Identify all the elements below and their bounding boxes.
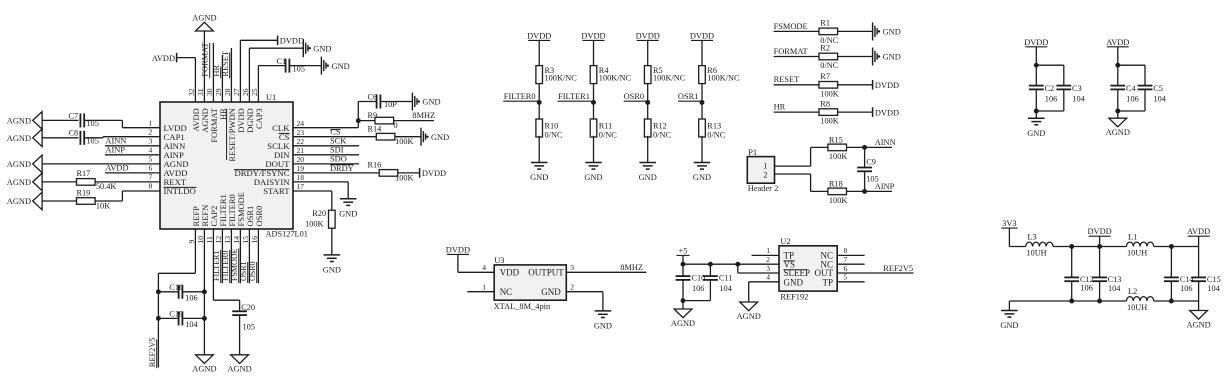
svg-text:24: 24 (297, 119, 305, 128)
resistor R15 (828, 136, 847, 161)
net DRDY label (330, 164, 354, 173)
wire HR to R8 (774, 111, 820, 113)
resistor R13 (699, 119, 726, 140)
resistor R11 (590, 119, 617, 140)
svg-text:0/NC: 0/NC (545, 131, 563, 140)
wire U1 pin19 DRDY (293, 172, 379, 174)
wire U1 pin16 OSR0 stub (257, 229, 259, 283)
svg-text:AGND: AGND (7, 197, 31, 206)
svg-text:19: 19 (297, 164, 305, 173)
svg-text:FILTER0: FILTER0 (504, 92, 536, 101)
wire DVDD to R4 (593, 40, 595, 65)
voltage reference U2 REF192 body (779, 246, 837, 291)
inductor L3 (1026, 233, 1053, 258)
svg-text:U2: U2 (780, 237, 790, 246)
ground AGND below REFN (196, 355, 214, 364)
svg-text:XTAL_8M_4pin: XTAL_8M_4pin (494, 302, 551, 311)
inductor L1 (1127, 233, 1154, 258)
svg-text:104: 104 (185, 320, 198, 329)
ground AGND below U2 GND (740, 302, 758, 311)
svg-text:5: 5 (149, 155, 153, 164)
svg-text:GND: GND (1027, 129, 1045, 138)
wire DVDD to R3 (538, 40, 540, 65)
svg-text:C11: C11 (719, 274, 733, 283)
U1 top pin numbers 32-25 (187, 88, 259, 96)
junction dot C14 top (1169, 244, 1174, 249)
svg-text:R12: R12 (653, 122, 667, 131)
svg-text:AGND: AGND (192, 365, 216, 374)
svg-text:REF2V5: REF2V5 (883, 264, 913, 273)
op-amp U1 ADS127L01 body (160, 102, 293, 229)
svg-text:C1: C1 (277, 57, 287, 66)
ground AGND arrow pin2 (7, 129, 42, 147)
U1 bottom pin numbers 9-16 (187, 236, 259, 244)
net FORMAT rotated label (201, 43, 210, 79)
wire +5 rail to U2 VS (683, 263, 779, 265)
U1 right pin names (234, 123, 290, 196)
svg-text:Header 2: Header 2 (748, 184, 778, 193)
capacitor C8 (69, 129, 99, 146)
net RESET rotated label (221, 51, 230, 78)
wire U1 pin31 AGND (203, 31, 205, 102)
svg-text:AINP: AINP (105, 146, 125, 155)
svg-text:3: 3 (570, 263, 574, 272)
svg-text:AINN: AINN (105, 137, 126, 146)
wire C7 to U1 pin1 (84, 120, 160, 127)
U1 right pin numbers 24-17 (297, 119, 305, 191)
svg-text:10UH: 10UH (1026, 249, 1046, 258)
inductor L2 (1127, 287, 1154, 312)
svg-text:C16: C16 (169, 283, 183, 292)
svg-text:GND: GND (639, 173, 657, 182)
svg-text:RESET: RESET (221, 51, 230, 77)
wire U1 pin23 CS (293, 136, 376, 138)
wire R4 to R11 (593, 84, 595, 119)
svg-text:C20: C20 (241, 303, 255, 312)
svg-text:R8: R8 (820, 99, 830, 108)
power DVDD tick top (277, 36, 279, 46)
power GND symbol C6 (411, 93, 413, 111)
svg-text:2: 2 (570, 283, 574, 292)
svg-text:OSR0: OSR0 (624, 92, 644, 101)
junction dot REF2V5 C16 (156, 289, 161, 294)
wire AGND to C8 (42, 137, 78, 139)
junction dot FILTER1 (591, 100, 596, 105)
svg-text:20: 20 (297, 155, 305, 164)
resistor R16 (368, 160, 414, 182)
svg-text:AGND: AGND (227, 365, 251, 374)
wire R14 to GND (395, 136, 421, 138)
svg-text:AVDD: AVDD (105, 164, 128, 173)
svg-text:100K: 100K (395, 137, 413, 146)
wire U1 pin9 REFP (158, 229, 195, 367)
svg-text:C4: C4 (1126, 84, 1137, 93)
svg-text:DVDD: DVDD (875, 81, 899, 90)
capacitor C19 (158, 310, 204, 330)
wire U1 pin18 to GND (293, 182, 348, 199)
ground AGND C4C5 (1109, 118, 1127, 127)
capacitor C12 (1064, 247, 1094, 302)
capacitor C7 (69, 111, 99, 128)
svg-text:6: 6 (844, 264, 848, 273)
svg-text:R9: R9 (368, 111, 378, 120)
svg-text:GND: GND (339, 209, 357, 218)
svg-text:R19: R19 (77, 188, 91, 197)
wire DVDD stub down (1035, 47, 1037, 65)
svg-text:GND: GND (584, 173, 602, 182)
U2 left pin numbers (766, 246, 770, 281)
svg-text:2: 2 (763, 171, 767, 180)
power DVDD label col1 (527, 31, 551, 40)
U2 right pin numbers (844, 246, 848, 281)
svg-text:GND: GND (693, 173, 711, 182)
svg-text:AGND: AGND (1106, 128, 1130, 137)
svg-text:GND: GND (332, 62, 350, 71)
svg-text:21: 21 (297, 146, 305, 155)
svg-text:+5: +5 (679, 246, 688, 255)
junction dot OSR0 (645, 100, 650, 105)
svg-text:GND: GND (530, 173, 548, 182)
svg-text:106: 106 (185, 294, 197, 303)
svg-text:0/NC: 0/NC (653, 131, 671, 140)
svg-text:100K: 100K (820, 89, 838, 98)
svg-text:L1: L1 (1128, 233, 1137, 242)
wire U2 pin6 OUT REF2V5 (837, 272, 913, 274)
power 3V3 label (1001, 219, 1017, 228)
svg-text:HR: HR (212, 65, 221, 77)
svg-text:100K: 100K (820, 117, 838, 126)
wire R1 to GND (837, 30, 872, 32)
resistor R5 (644, 66, 685, 84)
resistor R14 (368, 124, 414, 146)
wire R5 to R12 (647, 84, 649, 119)
svg-text:GND: GND (422, 98, 440, 107)
svg-text:AGND: AGND (671, 319, 695, 328)
wire R2 to GND (837, 56, 872, 58)
svg-text:106: 106 (1080, 284, 1092, 293)
power GND symbol pin26 (302, 39, 304, 57)
svg-text:U3: U3 (494, 256, 504, 265)
wire U3 pin1 NC stub (467, 291, 494, 293)
capacitor C16 (158, 283, 204, 303)
power AVDD label filter (1187, 227, 1210, 236)
wire R12 to GND (647, 136, 649, 163)
capacitor C3 (1056, 84, 1085, 103)
wire FORMAT to R2 (774, 56, 820, 58)
wire R11 to GND (593, 136, 595, 163)
svg-text:GND: GND (784, 277, 804, 287)
wire U3 pin2 GND (566, 292, 603, 311)
svg-text:CAP3: CAP3 (254, 108, 264, 129)
svg-text:R17: R17 (77, 169, 91, 178)
wire R17 to U1 pin7 (95, 181, 160, 183)
capacitor C13 (1092, 247, 1121, 302)
resistor R4 (590, 66, 631, 84)
svg-text:C10: C10 (692, 274, 706, 283)
resistor R10 (536, 119, 563, 140)
capacitor C4 (1110, 65, 1138, 111)
junction dot OSR1 (700, 100, 705, 105)
wire R3 to R10 (538, 84, 540, 119)
resistor R12 (644, 119, 671, 140)
junction dot C12 top (1069, 244, 1074, 249)
ground AGND arrow pin1 (7, 112, 42, 130)
junction dot C14 bottom (1169, 299, 1174, 304)
svg-text:GND: GND (431, 133, 449, 142)
svg-text:R7: R7 (820, 72, 830, 81)
wire U3 pin3 OUTPUT to 8MHZ (566, 271, 646, 273)
wire C8 to U1 pin2 (84, 137, 160, 138)
svg-text:DVDD: DVDD (581, 31, 605, 40)
wire AINN to U1 pin3 (105, 145, 160, 147)
resistor R3 (536, 66, 577, 84)
svg-text:U1: U1 (266, 93, 276, 102)
svg-text:100K: 100K (395, 174, 413, 183)
svg-text:OSR1: OSR1 (678, 92, 698, 101)
svg-text:AGND: AGND (7, 117, 31, 126)
svg-text:R13: R13 (707, 122, 721, 131)
wire R8 to DVDD (837, 111, 872, 113)
ground earth col1 (531, 162, 548, 164)
wire AGND to C7 (42, 119, 78, 121)
svg-text:REF2V5: REF2V5 (148, 337, 157, 367)
wire bottom rail left (1009, 301, 1126, 311)
svg-text:OSR0: OSR0 (254, 206, 264, 227)
svg-text:7: 7 (149, 173, 153, 182)
U2 left pin names (784, 251, 811, 288)
svg-text:HR: HR (774, 103, 786, 112)
wire C6 to GND (381, 101, 413, 103)
svg-text:VDD: VDD (500, 268, 520, 278)
power DVDD label filter (1087, 227, 1111, 236)
capacitor C5 (1138, 84, 1167, 103)
svg-text:0: 0 (394, 121, 398, 130)
power GND symbol C1 (320, 57, 322, 75)
wire U1 pin32 AVDD (177, 58, 196, 102)
svg-text:R14: R14 (368, 124, 383, 133)
svg-text:DVDD: DVDD (1087, 227, 1111, 236)
wire L3 to L1 (1053, 246, 1127, 248)
svg-text:2: 2 (149, 127, 153, 136)
wire U1 pin15 OSR1 stub (248, 229, 250, 283)
wire U1 pin27 DVDD (240, 40, 277, 102)
svg-text:R10: R10 (545, 122, 559, 131)
resistor R17 (77, 169, 117, 191)
svg-text:10UH: 10UH (1127, 249, 1147, 258)
connector P1 Header 2 body (747, 157, 774, 184)
junction dot C10 bottom (681, 298, 686, 303)
svg-text:1: 1 (766, 246, 770, 255)
junction dot +5 C10 (681, 262, 686, 267)
junction dot REF2V5 C19 (156, 316, 161, 321)
junction dot DVDD bottom (1034, 109, 1039, 114)
junction dot DVDD rail (1097, 244, 1102, 249)
svg-text:100K/NC: 100K/NC (599, 74, 632, 83)
power DVDD label col2 (581, 31, 605, 40)
svg-text:DVDD: DVDD (636, 31, 660, 40)
svg-text:R18: R18 (829, 180, 843, 189)
svg-text:106: 106 (692, 284, 704, 293)
wire U1 pin10 REFN to AGND (203, 229, 205, 355)
svg-text:OSR1: OSR1 (239, 261, 248, 281)
svg-text:100K/NC: 100K/NC (653, 74, 686, 83)
svg-text:100K: 100K (829, 152, 847, 161)
ground AGND above U1 (196, 22, 214, 31)
power DVDD tick R7 (872, 80, 874, 90)
ground AGND below C20 (231, 355, 249, 364)
junction dot REFN C19 (202, 316, 207, 321)
wire U2 TP pin1 (752, 254, 779, 256)
svg-text:4: 4 (482, 263, 486, 272)
svg-text:OUTPUT: OUTPUT (528, 268, 564, 278)
svg-text:DVDD: DVDD (446, 245, 470, 254)
wire R9 to 8MHZ (394, 120, 434, 122)
U1 bottom pin names (191, 192, 264, 226)
svg-text:10UH: 10UH (1127, 303, 1147, 312)
svg-text:L2: L2 (1128, 287, 1137, 296)
svg-text:GND: GND (313, 44, 331, 53)
oscillator U3 body (494, 265, 566, 300)
wire U1 pin24 CLK (293, 102, 358, 128)
svg-text:104: 104 (1108, 284, 1121, 293)
wire R15 to AINN (846, 146, 892, 148)
svg-text:R15: R15 (829, 136, 843, 145)
junction dot FILTER0 (537, 100, 542, 105)
resistor R7 (819, 72, 839, 98)
resistor R2 (819, 44, 839, 70)
svg-text:5: 5 (844, 273, 848, 282)
power DVDD label U3 (446, 245, 470, 254)
power GND symbol R14 (420, 128, 422, 146)
svg-text:R2: R2 (820, 44, 830, 53)
ground earth 3V3 filter (1001, 310, 1018, 312)
net OSR1 rotated label (239, 261, 248, 283)
svg-text:2: 2 (766, 255, 770, 264)
net FILTER0 rotated label (221, 250, 230, 283)
svg-text:R20: R20 (312, 209, 326, 218)
net OSR0 label (624, 92, 648, 101)
wire DVDD to U3 VDD (458, 254, 494, 272)
wire C20 to AGND (239, 315, 241, 355)
svg-text:104: 104 (1072, 94, 1085, 103)
svg-text:GND: GND (883, 53, 901, 62)
wire C11 bottom to C10 bottom (683, 301, 710, 309)
junction dot C13 bottom (1097, 299, 1102, 304)
wire RESET to R7 (774, 84, 820, 86)
ground earth R20 (324, 254, 341, 256)
wire U1 pin25 CAP3 (258, 66, 285, 102)
svg-text:106: 106 (1045, 94, 1057, 103)
net CS label (330, 127, 341, 136)
ground earth col2 (585, 162, 602, 164)
wire P1 pin1 to R15 (775, 147, 829, 166)
resistor R18 (828, 180, 847, 205)
svg-text:100K: 100K (829, 196, 847, 205)
svg-text:ADS127L01: ADS127L01 (266, 230, 308, 239)
wire AINP to U1 pin4 (105, 154, 160, 156)
ground earth col3 (639, 162, 656, 164)
svg-text:R16: R16 (368, 160, 382, 169)
svg-text:100K: 100K (305, 220, 323, 229)
svg-text:P1: P1 (748, 148, 757, 157)
wire U1 pin22 SCK (293, 145, 359, 147)
wire AVDD to U1 pin6 (105, 172, 160, 174)
capacitor C11 (703, 264, 733, 300)
power AVDD tick at U1 top (176, 53, 178, 63)
svg-text:OSR0: OSR0 (248, 261, 257, 281)
svg-text:FORMAT: FORMAT (774, 47, 808, 56)
net FILTER0 label (503, 92, 539, 101)
wire U1 pin29 HR stub (221, 55, 223, 102)
wire loop C3 (1036, 65, 1064, 111)
net REF2V5 rotated label left (148, 337, 157, 368)
svg-text:50.4K: 50.4K (96, 182, 117, 191)
resistor R8 (819, 99, 839, 125)
wire L1 to AVDD corner (1154, 246, 1199, 248)
svg-text:104: 104 (1154, 94, 1167, 103)
svg-text:3: 3 (149, 136, 153, 145)
ground AGND 3V3 filter (1190, 311, 1208, 320)
svg-text:DVDD: DVDD (527, 31, 551, 40)
wire branch to U2 SLEEP (738, 264, 779, 273)
svg-text:R11: R11 (599, 122, 613, 131)
svg-text:GND: GND (541, 287, 561, 297)
svg-text:8: 8 (149, 182, 153, 191)
wire AGND to R17 (42, 181, 76, 183)
capacitor C10 (676, 264, 706, 300)
capacitor C1 (277, 57, 305, 74)
wire R13 to GND (701, 136, 703, 163)
wire CLK junction to R9 (358, 120, 375, 122)
svg-text:AGND: AGND (737, 312, 761, 321)
svg-text:1: 1 (763, 161, 767, 170)
wire U2 pin7 (837, 263, 864, 265)
wire U2 GND pin4 (749, 282, 779, 302)
svg-text:AVDD: AVDD (152, 54, 175, 63)
wire AGND to R19 (42, 200, 76, 202)
wire U1 pin14 FSMODE stub (239, 229, 241, 283)
net FILTER1 rotated label (212, 250, 221, 283)
net FILTER1 label (558, 92, 594, 101)
net HR rotated label (212, 65, 221, 79)
junction dot DVDD top (1034, 63, 1039, 68)
power +5 label (676, 246, 689, 255)
junction dot AVDD top (1115, 63, 1120, 68)
svg-text:FILTER0: FILTER0 (221, 251, 230, 281)
wire AGND to U1 pin5 (42, 163, 160, 165)
svg-text:C5: C5 (1153, 84, 1163, 93)
svg-text:DRDY: DRDY (330, 164, 354, 173)
ground AGND below C10 (674, 309, 692, 318)
svg-text:START: START (263, 186, 290, 196)
svg-text:C8: C8 (69, 129, 79, 138)
wire U1 pin17 START (293, 191, 332, 210)
svg-text:7: 7 (844, 255, 848, 264)
junction dot AINN C9 (862, 145, 867, 150)
power AVDD label decoupling (1106, 38, 1129, 47)
svg-text:6: 6 (149, 164, 153, 173)
svg-text:1: 1 (482, 283, 486, 292)
wire R18 to AINP (846, 190, 892, 192)
svg-text:NC: NC (500, 287, 513, 297)
svg-text:DVDD: DVDD (875, 108, 899, 117)
wire U1 pin13 FILTER0 stub (230, 229, 232, 283)
wire AVDD stub filter (1198, 236, 1200, 246)
wire C2 to GND (1035, 111, 1037, 118)
wire R6 to R13 (701, 84, 703, 119)
svg-text:GND: GND (883, 28, 901, 37)
U1 top pin names (191, 107, 264, 161)
